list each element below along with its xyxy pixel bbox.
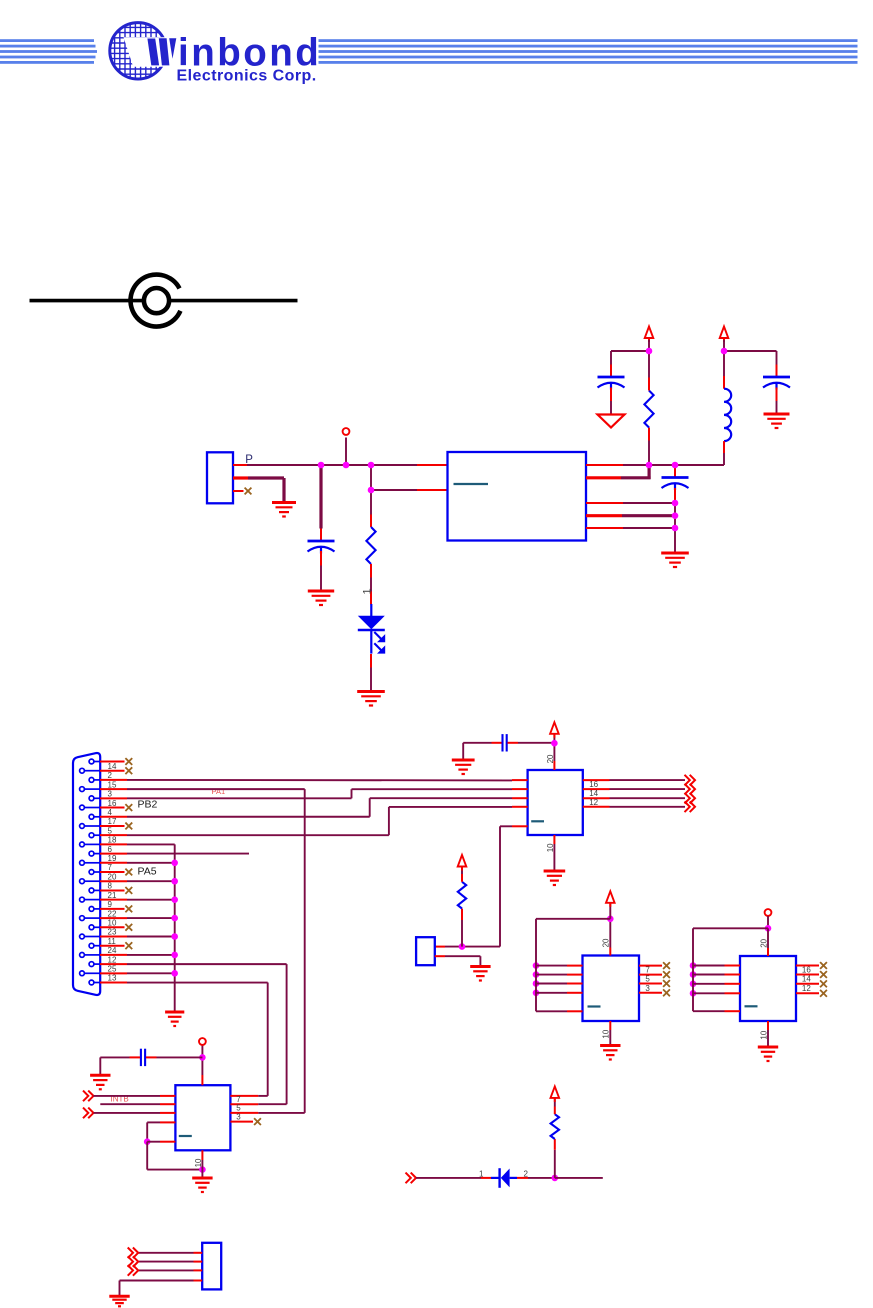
- IC U4 left pin4 stub: [725, 992, 741, 994]
- svg-text:6: 6: [108, 845, 113, 854]
- wire row7 to U2 pin3: [370, 797, 512, 799]
- svg-text:3: 3: [645, 984, 650, 993]
- J1 row 21 stub: [100, 945, 125, 947]
- svg-text:19: 19: [108, 854, 117, 863]
- J1 pin row 5 circle: [89, 796, 94, 801]
- ground bus vertical: [174, 844, 176, 1011]
- IC U4 left pin5 stub: [725, 1010, 741, 1012]
- wire P1 pin3 stub: [233, 490, 244, 492]
- wire main rail left: [247, 464, 417, 466]
- wire C3 drop: [776, 351, 778, 365]
- J1 pin row 25 circle: [89, 980, 94, 985]
- IC U4 right pin4 stub: [796, 992, 819, 994]
- svg-text:5: 5: [236, 1104, 241, 1113]
- no-connect X U3-1: [663, 962, 670, 969]
- J1 pin row 7 circle: [89, 814, 94, 819]
- cap C5 left lead: [492, 742, 502, 744]
- junction U3 bus 2: [533, 971, 540, 978]
- ground below J2: [470, 967, 490, 981]
- wire C5 ground drop: [462, 743, 464, 760]
- svg-text:25: 25: [108, 965, 117, 974]
- svg-text:3: 3: [236, 1112, 241, 1121]
- J1 pin row 6 circle: [80, 805, 85, 810]
- wire U1 pin2 thick: [621, 476, 651, 479]
- junction U4 bus 3: [690, 981, 697, 988]
- wire U3 in 2: [536, 974, 567, 976]
- no-connect X row 6: [125, 804, 132, 811]
- resistor R1 bottom lead: [370, 564, 372, 578]
- power arrow above R3: [458, 855, 467, 871]
- J2 pin2 stub: [435, 955, 445, 957]
- svg-text:7: 7: [108, 863, 113, 872]
- off-page chevron J3-2: [128, 1256, 139, 1267]
- junction U3 vcc: [607, 916, 614, 923]
- IC U5 marking: [179, 1135, 192, 1137]
- IC U3 right pin2 stub: [639, 974, 662, 976]
- IC U3 right pin1 stub: [639, 965, 662, 967]
- connector J2 body: [416, 937, 435, 965]
- J1 row 14 stub: [100, 880, 127, 882]
- IC U2 marking: [531, 820, 544, 822]
- IC U4 pin20 stub: [767, 948, 769, 956]
- LED D1: [358, 604, 385, 654]
- no-connect X row 15: [125, 887, 132, 894]
- IC U5 pin20 stub: [201, 1075, 203, 1085]
- inductor L1: [724, 389, 731, 441]
- no-connect X row 8: [125, 823, 132, 830]
- svg-text:1: 1: [362, 588, 374, 594]
- IC U2 right pin1 stub: [583, 779, 610, 781]
- svg-text:10: 10: [759, 1030, 768, 1039]
- wire U5 pin20: [201, 1045, 203, 1075]
- cap C3 bottom lead: [776, 388, 778, 402]
- J3 pin4 stub: [194, 1280, 203, 1282]
- node symbol inner circle: [144, 288, 169, 313]
- wire U3 vcc stem: [609, 901, 611, 919]
- wire U5 left pin2: [100, 1103, 160, 1105]
- J1 row 2 stub: [100, 770, 125, 772]
- IC U5 left pin5 stub: [160, 1141, 175, 1143]
- power arrow above U2: [550, 722, 559, 738]
- IC U5 right pin1 stub: [230, 1095, 258, 1097]
- IC U3 left pin4 stub: [567, 992, 583, 994]
- J1 row 13 stub: [100, 871, 125, 873]
- IC U1 right pin1 stub: [586, 464, 623, 466]
- no-connect X row 21: [125, 942, 132, 949]
- svg-text:18: 18: [108, 836, 117, 845]
- J1 row 9 stub: [100, 834, 127, 836]
- wire diode to node: [528, 1177, 555, 1179]
- J1 row 4 stub: [100, 788, 127, 790]
- IC U2 left pin4 stub: [512, 806, 528, 808]
- svg-text:16: 16: [802, 965, 811, 974]
- IC U2 right pin3 stub: [583, 797, 610, 799]
- IC U1 pin2 stub: [417, 489, 448, 491]
- node symbol horizontal line: [30, 299, 298, 303]
- wire rail to R2: [648, 441, 650, 466]
- resistor R4 bottom lead: [554, 1139, 556, 1150]
- wire LED to ground: [370, 668, 372, 692]
- wire U5 loop bottom: [147, 1169, 202, 1171]
- cap C3 top lead: [776, 365, 778, 378]
- diode D2: [491, 1168, 517, 1188]
- power arrow above U3: [606, 891, 615, 907]
- wire J3 pin1: [138, 1252, 193, 1254]
- IC U3 body: [583, 956, 640, 1022]
- J1 pin row 19 circle: [89, 925, 94, 930]
- J1 pin row 4 circle: [80, 787, 85, 792]
- resistor R1: [366, 527, 375, 564]
- junction R3-J2: [459, 943, 466, 950]
- wire P1 pin2 stub: [233, 476, 248, 479]
- wire C5 to ground: [463, 742, 491, 744]
- ground below U3: [600, 1046, 620, 1060]
- no-connect X U3-2: [663, 971, 670, 978]
- wire U4 in 1: [693, 965, 725, 967]
- junction power-649: [646, 348, 653, 355]
- cap C2 top lead: [610, 365, 612, 378]
- resistor R1 top lead: [370, 515, 372, 528]
- wire R3 to power: [461, 865, 463, 875]
- wire U4 bus bottom: [693, 1010, 725, 1012]
- IC U3 right pin4 stub: [639, 992, 662, 994]
- IC U3 left pin5 stub: [567, 1010, 583, 1012]
- IC U4 right pin3 stub: [796, 983, 819, 985]
- wire C5 to U2 node: [518, 742, 554, 744]
- wire U1 pin5 to cap node: [623, 527, 675, 529]
- wire R4 bottom: [554, 1150, 556, 1178]
- IC U1 marking: [454, 483, 489, 485]
- svg-text:24: 24: [108, 946, 117, 955]
- wire U1 pin1 to node: [623, 464, 649, 466]
- no-connect X U5 pin4: [254, 1118, 261, 1125]
- off-page chevron U2-4: [685, 802, 696, 813]
- svg-text:20: 20: [546, 754, 555, 763]
- wire U2 out 4: [610, 806, 686, 808]
- J1 pin row 17 circle: [89, 907, 94, 912]
- wire U2 out 1: [610, 779, 686, 781]
- wire row9 horizontal: [127, 834, 389, 836]
- no-connect X row 17: [125, 905, 132, 912]
- no-connect X row 13: [125, 869, 132, 876]
- wire row5 riser: [351, 789, 353, 798]
- wire U3 in 1: [536, 965, 567, 967]
- wire J3 pin3: [138, 1269, 193, 1271]
- wire P1 pin2 to ground: [248, 476, 284, 479]
- ground below P1: [272, 503, 296, 517]
- IC U1 right pin2 stub: [586, 476, 621, 479]
- J2 pin1 stub: [435, 946, 445, 948]
- wire C6 to ground: [100, 1056, 129, 1058]
- resistor R4: [551, 1114, 559, 1139]
- cap C1 top lead: [320, 529, 322, 542]
- J3 pin3 stub: [194, 1269, 203, 1271]
- wire resistor R1 top: [370, 490, 372, 515]
- wire PA1 vertical: [304, 789, 306, 1113]
- svg-text:12: 12: [108, 955, 117, 964]
- wire U3 in 4: [536, 992, 567, 994]
- J1 pin row 2 circle: [80, 768, 85, 773]
- J1 row 22 stub: [100, 954, 127, 956]
- resistor R3 top lead: [461, 874, 463, 882]
- resistor R2 top lead: [648, 378, 650, 391]
- power arrow above R4: [551, 1086, 560, 1102]
- wire U2 pin5 vertical: [499, 826, 501, 946]
- wire C3 to ground: [776, 401, 778, 414]
- svg-text:13: 13: [108, 974, 117, 983]
- junction rail-675: [672, 462, 679, 469]
- J3 pin1 stub: [194, 1252, 203, 1254]
- no-connect X on P1 pin3: [245, 488, 252, 495]
- ground below U5: [192, 1178, 212, 1192]
- off-page chevron J3-3: [128, 1265, 139, 1276]
- svg-text:12: 12: [802, 984, 811, 993]
- IC U5 left pin2 stub: [160, 1103, 175, 1105]
- wire J2 pin2 to ground: [445, 955, 480, 957]
- J1 row 6 stub: [100, 807, 125, 809]
- resistor R2: [644, 391, 653, 428]
- wire U2 pin20: [553, 743, 555, 761]
- ground below U2: [544, 871, 566, 885]
- svg-text:4: 4: [108, 808, 113, 817]
- junction C4-503: [672, 500, 679, 507]
- wire row23 horizontal: [127, 963, 287, 965]
- IC U5 right pin2 stub: [230, 1103, 258, 1105]
- diode D2 right lead: [517, 1177, 528, 1179]
- Winbond logo wafer circle: [107, 20, 200, 85]
- wire U5 pin10 ground: [201, 1160, 203, 1170]
- IC U4 right pin2 stub: [796, 974, 819, 976]
- cap C4 top lead: [674, 465, 676, 478]
- wire J2 ground drop: [479, 956, 481, 966]
- IC U5 left pin3 stub: [160, 1112, 175, 1114]
- svg-text:10: 10: [108, 918, 117, 927]
- junction diode-R4: [552, 1175, 559, 1182]
- wire L1 to rail: [723, 453, 725, 465]
- off-page chevron U2-3: [685, 793, 696, 804]
- IC U5 left pin1 stub: [160, 1095, 175, 1097]
- IC U5 right pin3 stub: [230, 1112, 258, 1114]
- svg-text:20: 20: [759, 938, 768, 947]
- J1 row 16 stub: [100, 899, 127, 901]
- wire node to second pin: [370, 465, 372, 490]
- IC U5 left pin4 stub: [160, 1121, 175, 1123]
- wire row11 dangling: [127, 853, 249, 855]
- wire INTB: [94, 1095, 161, 1097]
- connector circle node top: [343, 428, 350, 435]
- IC U1 right pin4 stub: [586, 514, 622, 517]
- svg-text:3: 3: [108, 790, 113, 799]
- ground triangle below C2: [598, 415, 625, 428]
- IC U2 right pin4 stub: [583, 806, 610, 808]
- wire U2 vcc stem: [553, 732, 555, 743]
- wire U3 bus vertical: [535, 919, 537, 1012]
- wire U4 pin10 ground: [767, 1030, 769, 1047]
- power VCC2 stem: [723, 340, 725, 351]
- connector J3 body: [202, 1243, 221, 1290]
- off-page chevron U5 pin3: [83, 1108, 94, 1119]
- wire U5 pin4 drop: [146, 1122, 148, 1141]
- junction 371-490: [368, 487, 375, 494]
- svg-text:PA5: PA5: [138, 865, 157, 877]
- connector J1 DB25 shell: [73, 753, 100, 995]
- wire row 24 to bus: [127, 972, 175, 974]
- IC U4 marking: [745, 1005, 758, 1007]
- IC U1 body: [448, 452, 587, 541]
- junction rail-321: [318, 462, 325, 469]
- J1 pin row 8 circle: [80, 824, 85, 829]
- svg-text:Electronics Corp.: Electronics Corp.: [177, 67, 317, 84]
- J1 row 15 stub: [100, 889, 125, 891]
- logo left stripes: [0, 39, 94, 42]
- svg-text:12: 12: [589, 798, 598, 807]
- wire row9 to U2 pin4: [389, 806, 512, 808]
- junction bus row 18: [171, 915, 178, 922]
- IC U4 pin10 stub: [767, 1021, 769, 1030]
- wire U5 pin4 left: [147, 1121, 160, 1123]
- wire row10 to bus: [127, 843, 175, 845]
- resistor R3 bottom lead: [461, 909, 463, 920]
- diode D2 left lead: [481, 1177, 491, 1179]
- wire IC U1 pin-in stub: [417, 464, 448, 466]
- wire U3 bus bottom: [536, 1010, 567, 1012]
- connector circle above U4: [765, 909, 772, 916]
- junction bus row 22: [171, 952, 178, 959]
- wire C6 to U5 node: [157, 1056, 203, 1058]
- wire J3 ground drop: [119, 1281, 121, 1297]
- wire row5 to U2 pin2: [352, 788, 513, 790]
- J1 row 23 stub: [100, 963, 127, 965]
- no-connect X U4-3: [820, 980, 827, 987]
- J1 row 11 stub: [100, 853, 127, 855]
- no-connect X row 2: [125, 767, 132, 774]
- wire P1 ground drop: [282, 478, 285, 502]
- wire row 18 to bus: [127, 917, 175, 919]
- IC U3 pin10 stub: [609, 1021, 611, 1030]
- wire C6 ground drop: [99, 1057, 101, 1075]
- no-connect X U3-3: [663, 980, 670, 987]
- junction bus row 14: [171, 878, 178, 885]
- IC U2 left pin2 stub: [512, 788, 528, 790]
- wire row 20 to bus: [127, 935, 175, 937]
- J1 row 18 stub: [100, 917, 127, 919]
- wire to J2 pin1: [445, 946, 500, 948]
- power arrow VCC2: [720, 327, 729, 343]
- no-connect X row 1: [125, 758, 132, 765]
- wire row 12 to bus: [127, 862, 175, 864]
- wire row25 vertical: [267, 983, 269, 1096]
- junction U5 vcc: [199, 1054, 206, 1061]
- svg-text:16: 16: [108, 799, 117, 808]
- J1 pin row 23 circle: [89, 962, 94, 967]
- IC U3 pin20 stub: [609, 948, 611, 956]
- no-connect X row 19: [125, 924, 132, 931]
- J1 pin row 13 circle: [89, 870, 94, 875]
- J1 row 10 stub: [100, 843, 127, 845]
- svg-text:20: 20: [108, 872, 117, 881]
- capacitor C2: [598, 377, 625, 390]
- junction U3 bus 3: [533, 980, 540, 987]
- junction bus row 20: [171, 933, 178, 940]
- inductor L1 top lead: [723, 376, 725, 389]
- wire U4 circle stem: [767, 916, 769, 928]
- LED D1 top lead red: [370, 592, 372, 605]
- junction U4 bus 1: [690, 962, 697, 969]
- wire row 14 to bus: [127, 880, 175, 882]
- no-connect X U4-4: [820, 990, 827, 997]
- svg-text:16: 16: [589, 780, 598, 789]
- IC U1 right pin3 stub: [586, 502, 623, 504]
- wire U4 pin20: [767, 928, 769, 948]
- J1 pin row 20 circle: [80, 934, 85, 939]
- IC U4 body: [740, 956, 796, 1021]
- wire U1 pin3 to cap node: [623, 502, 675, 504]
- J1 pin row 21 circle: [89, 943, 94, 948]
- capacitor C3: [763, 377, 790, 390]
- wire row 22 to bus: [127, 954, 175, 956]
- junction C4-516: [672, 512, 679, 519]
- resistor R3: [458, 882, 466, 909]
- no-connect X U3-4: [663, 989, 670, 996]
- wire J3 pin4: [120, 1280, 194, 1282]
- wire row7 horizontal: [127, 816, 370, 818]
- wire U2 out 3: [610, 797, 686, 799]
- capacitor C5: [503, 734, 507, 751]
- cap C4 bottom lead: [674, 488, 676, 503]
- ground below C1: [308, 591, 334, 605]
- ground below J1 bus: [165, 1012, 184, 1026]
- capacitor C4: [662, 478, 689, 491]
- off-page chevron U2-2: [685, 784, 696, 795]
- junction U3 bus 1: [533, 962, 540, 969]
- svg-text:21: 21: [108, 891, 117, 900]
- off-page chevron diode input: [406, 1173, 417, 1184]
- wire row4 PA1 horizontal: [127, 788, 305, 790]
- svg-text:10: 10: [546, 843, 555, 852]
- wire row 16 to bus: [127, 899, 175, 901]
- IC U1 right pin5 stub: [586, 527, 623, 529]
- capacitor C6: [141, 1049, 145, 1066]
- wire PA1 to U5 pin: [258, 1112, 305, 1114]
- junction rail-371: [368, 462, 375, 469]
- J1 pin row 24 circle: [80, 971, 85, 976]
- J1 row 24 stub: [100, 972, 127, 974]
- svg-text:20: 20: [602, 938, 611, 947]
- svg-text:10: 10: [602, 1029, 611, 1038]
- cap C6 left lead: [130, 1056, 141, 1058]
- inductor L1 bottom lead: [723, 441, 725, 453]
- junction U2 vcc: [551, 740, 558, 747]
- wire U2 pin5 left: [500, 825, 512, 827]
- ground below U4: [758, 1047, 778, 1061]
- IC U5 body: [175, 1085, 230, 1150]
- wire U2 out 2: [610, 788, 686, 790]
- J1 pin row 12 circle: [80, 860, 85, 865]
- cap C6 right lead: [146, 1056, 157, 1058]
- cap C5 right lead: [508, 742, 519, 744]
- wire row23 to U5: [258, 1103, 286, 1105]
- junction bus row 24: [171, 970, 178, 977]
- J1 pin row 15 circle: [89, 888, 94, 893]
- resistor R2 bottom lead: [648, 428, 650, 441]
- J1 pin row 22 circle: [80, 953, 85, 958]
- svg-text:14: 14: [802, 975, 811, 984]
- wire to IC U1 pin2: [371, 489, 417, 491]
- J1 pin row 1 circle: [89, 759, 94, 764]
- cap C1 bottom lead: [320, 551, 322, 566]
- IC U3 left pin3 stub: [567, 983, 583, 985]
- junction rail-346: [343, 462, 350, 469]
